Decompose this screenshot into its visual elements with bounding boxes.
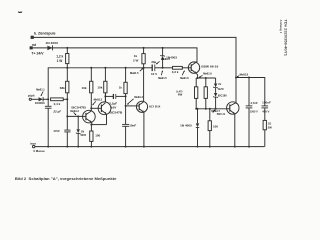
svg-text:2x: 2x	[218, 82, 221, 86]
svg-text:10 V: 10 V	[151, 72, 157, 76]
wire input terminal lead	[31, 98, 38, 100]
resistor R1 1,2k 1W	[66, 47, 69, 69]
node terminal b	[31, 36, 34, 39]
svg-text:1500 V: 1500 V	[250, 110, 258, 114]
svg-text:grü/gelb: grü/gelb	[28, 94, 35, 98]
svg-text:100: 100	[95, 134, 100, 138]
margin note TDv	[279, 20, 288, 57]
transistor Q3 BCY58	[126, 101, 148, 147]
transistor Q1 BC547B	[83, 110, 96, 124]
svg-text:2,4 k: 2,4 k	[54, 102, 61, 106]
svg-text:Meß1.1: Meß1.1	[36, 89, 45, 92]
node Mess1.5a	[130, 68, 143, 75]
node ground terminal	[33, 145, 35, 147]
svg-text:BSW 66-16: BSW 66-16	[201, 65, 218, 69]
wire snubber top	[236, 77, 265, 106]
node Mess1.1	[36, 89, 45, 97]
svg-text:4005: 4005	[80, 133, 86, 137]
capacitor C3 33uF 10V	[144, 65, 163, 72]
caption Bild 2	[15, 176, 117, 181]
resistor R4 10k	[90, 67, 93, 111]
resistor R2 2,4k input series	[51, 98, 69, 101]
svg-text:Meß1.5: Meß1.5	[158, 77, 167, 80]
svg-text:150nF: 150nF	[262, 101, 271, 105]
svg-text:Meß1.6: Meß1.6	[203, 73, 212, 76]
svg-text:Meß1.5: Meß1.5	[161, 58, 170, 61]
svg-text:Bild 2 Schaltplan "A", vorges: Bild 2 Schaltplan "A", vorgeschriebene M…	[15, 176, 117, 181]
wire emitter bus Q4	[196, 77, 215, 79]
node Mess1.4	[127, 96, 144, 105]
text labels group	[28, 31, 272, 153]
node input junction A	[47, 98, 49, 100]
svg-text:rot: rot	[32, 43, 37, 47]
svg-text:1N4003: 1N4003	[35, 101, 45, 105]
node terminal rot	[30, 46, 33, 49]
svg-text:Meß1.5: Meß1.5	[130, 72, 139, 75]
node Mess1.5c cap output	[158, 70, 167, 80]
node Mess1.6b base	[180, 70, 189, 80]
svg-text:400 V: 400 V	[262, 110, 269, 114]
transistor Q5 BSX21	[227, 102, 239, 148]
transistor Q2 BC547B	[98, 102, 111, 125]
capacitor C7 47nF	[64, 115, 70, 147]
resistor R5 10k	[104, 67, 107, 102]
svg-text:22 µF: 22 µF	[52, 109, 61, 113]
wire mid rail	[48, 68, 143, 100]
capacitor C1 22uF	[45, 99, 52, 147]
diode D7 1N4005	[196, 109, 199, 148]
wire Q1 Q2 cross coupling	[90, 107, 98, 109]
svg-text:BCY 58 IX: BCY 58 IX	[149, 104, 161, 108]
diode D2 1N4003 input	[39, 97, 49, 101]
svg-text:100: 100	[213, 124, 218, 128]
node Mess1.8	[237, 73, 249, 77]
svg-text:6W: 6W	[178, 93, 183, 97]
measuring point arrows group	[36, 58, 248, 116]
node terminal gruen	[29, 98, 31, 100]
resistor R12 100 emitter	[90, 125, 93, 148]
svg-text:1N 4003: 1N 4003	[45, 41, 58, 45]
svg-text:BZX: BZX	[218, 87, 224, 91]
svg-text:braun: braun	[30, 141, 36, 145]
svg-text:1N 4005: 1N 4005	[180, 124, 192, 128]
svg-text:1 W: 1 W	[57, 59, 63, 63]
wire node X vertical	[125, 96, 127, 124]
svg-text:Meß1.6: Meß1.6	[180, 77, 189, 80]
svg-text:Anhang 1: Anhang 1	[279, 20, 283, 34]
handwritten mark top left	[18, 11, 22, 14]
diode D1 1N4003 series rail2	[47, 45, 52, 50]
wire rail2 plus24V	[31, 48, 197, 62]
resistor R3 68k	[66, 68, 69, 100]
wire Q5 base line	[195, 108, 226, 110]
diode D3 zener 1N4005	[76, 115, 81, 147]
svg-text:1,2 k: 1,2 k	[56, 54, 63, 58]
node X base tap	[125, 105, 127, 107]
capacitor C4 10nF	[122, 124, 129, 147]
resistor R7 1k 2W	[142, 47, 145, 101]
diode D6 zener BZX	[213, 93, 218, 109]
node Mess1.2	[70, 110, 79, 116]
svg-text:Meß1.8: Meß1.8	[240, 73, 249, 76]
svg-text:Meß1.2: Meß1.2	[70, 110, 79, 113]
diode D5 zener BZX	[213, 78, 218, 93]
svg-text:16V: 16V	[111, 106, 117, 110]
transistor Q4 BSW66-16	[188, 62, 199, 79]
svg-text:T+ 24/V: T+ 24/V	[31, 52, 44, 56]
resistor R6 1k timing	[124, 67, 127, 97]
svg-text:b. Zündspule: b. Zündspule	[34, 31, 56, 36]
svg-text:Meß1.3: Meß1.3	[94, 99, 103, 102]
resistor R8 3,3k	[163, 66, 189, 69]
resistor R9 470 6W	[195, 78, 198, 109]
svg-text:4,7nF: 4,7nF	[250, 101, 258, 105]
svg-text:85C180: 85C180	[218, 94, 227, 98]
node Mess1.3	[92, 99, 102, 106]
wire rail1 Zuendspule	[32, 37, 237, 77]
svg-text:47nF: 47nF	[53, 129, 60, 133]
node Mess1.7	[211, 109, 220, 113]
svg-text:2 W: 2 W	[133, 58, 139, 62]
svg-text:33µ: 33µ	[151, 60, 156, 64]
capacitor C2 2,2uF 16V coupling	[104, 93, 126, 102]
wire common emitter line	[90, 124, 106, 126]
svg-text:3,3 k: 3,3 k	[172, 70, 179, 74]
svg-text:10nF: 10nF	[129, 123, 136, 127]
capacitor C6 150nF 400V	[262, 106, 269, 121]
svg-text:1k: 1k	[119, 85, 123, 89]
wire ground rail	[35, 146, 265, 148]
svg-text:10k: 10k	[82, 86, 87, 90]
diode D4 zener 1N4003	[160, 47, 165, 69]
svg-text:Meß1.4: Meß1.4	[134, 96, 143, 99]
wire Q1 base feed	[67, 99, 82, 116]
svg-text:TDv 2320/358-40/71: TDv 2320/358-40/71	[284, 20, 288, 57]
svg-text:10k: 10k	[97, 86, 102, 90]
svg-text:2W: 2W	[268, 126, 273, 130]
node Mess1.6	[199, 73, 212, 78]
svg-text:0 Masse: 0 Masse	[33, 149, 45, 153]
capacitor C5 4,7nF 1500V	[246, 78, 253, 148]
resistor R11 100	[208, 108, 211, 148]
svg-text:68k: 68k	[60, 86, 65, 90]
svg-text:BC547B: BC547B	[110, 111, 124, 115]
svg-text:BC547B: BC547B	[71, 105, 86, 109]
wire collector Q5 from rail1	[235, 77, 237, 104]
resistor R13 1ohm 2W	[263, 120, 266, 146]
resistor R10 470 6W	[204, 78, 207, 109]
node Mess1.5b	[156, 58, 171, 64]
